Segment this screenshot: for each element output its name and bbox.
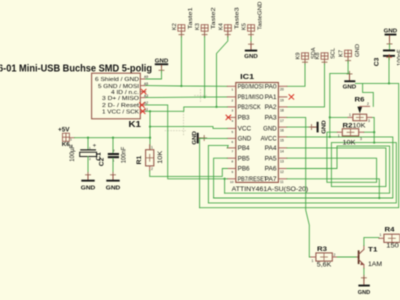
- wire C3 bottom: [388, 57, 390, 84]
- connector K1: [92, 73, 149, 129]
- svg-text:5: 5: [232, 130, 234, 134]
- ground GND rotated at IC1 GND left: [192, 131, 207, 145]
- svg-text:Taste2: Taste2: [211, 7, 217, 29]
- wire R6 wiper to GND: [363, 83, 374, 106]
- no-connect X on K1 pin 4: [141, 89, 146, 94]
- svg-text:K3: K3: [195, 23, 201, 30]
- svg-text:IC1: IC1: [240, 72, 254, 81]
- svg-text:K4: K4: [218, 23, 224, 30]
- svg-text:PB5: PB5: [238, 156, 251, 162]
- svg-text:10: 10: [230, 180, 234, 184]
- wire K8 to PA2: [287, 64, 325, 107]
- svg-text:Taste3: Taste3: [234, 7, 240, 29]
- svg-text:14: 14: [280, 149, 284, 153]
- wire GND branch to R6 pin1 and AVCC: [330, 73, 350, 136]
- wire VCC to IC1: [150, 127, 227, 129]
- svg-text:100nF: 100nF: [122, 146, 128, 163]
- resistor R1: [136, 145, 164, 171]
- resistor R2: [337, 123, 363, 147]
- svg-text:1: 1: [232, 88, 234, 92]
- svg-text:7: 7: [232, 149, 234, 153]
- svg-text:TasteGND: TasteGND: [258, 2, 264, 30]
- pin cross K4: [225, 32, 230, 37]
- svg-text:C2: C2: [98, 157, 105, 166]
- wire PB4 net: [208, 145, 228, 203]
- label origin dotted cross near PB1: [195, 90, 207, 102]
- svg-text:9: 9: [232, 170, 234, 174]
- IC1 left pin stubs: [227, 86, 236, 179]
- svg-text:GND: GND: [358, 290, 371, 296]
- capacitor C1: [70, 137, 103, 173]
- wire PA4 net wrap: [208, 143, 396, 203]
- wire K2 to PB0: [181, 37, 227, 87]
- svg-text:K1: K1: [129, 120, 142, 129]
- no-connect X on K1 pin 2: [140, 103, 145, 108]
- part origin dotted cross IC1: [165, 112, 186, 136]
- svg-text:K5: K5: [242, 23, 248, 30]
- svg-text:PA7: PA7: [265, 177, 278, 183]
- svg-text:GND: GND: [238, 137, 252, 143]
- svg-text:GND: GND: [106, 186, 121, 192]
- svg-text:3: 3: [232, 108, 234, 112]
- svg-text:1: 1: [89, 146, 91, 150]
- svg-text:R4: R4: [385, 227, 396, 234]
- svg-text:5,6K: 5,6K: [317, 262, 332, 269]
- IC1 right pin stubs: [278, 86, 287, 179]
- svg-text:PA6: PA6: [265, 167, 278, 173]
- IC1 left pin names: [238, 85, 268, 184]
- ground GND below K7: [343, 71, 357, 90]
- junction: [215, 106, 217, 108]
- svg-text:100nF: 100nF: [397, 49, 400, 66]
- svg-text:+5V: +5V: [58, 127, 70, 134]
- IC1 right pin names: [261, 85, 278, 184]
- svg-text:SCL: SCL: [330, 47, 336, 59]
- svg-text:+: +: [93, 143, 97, 150]
- svg-text:18: 18: [280, 108, 284, 112]
- svg-text:1 VCC / SCK: 1 VCC / SCK: [102, 110, 139, 116]
- svg-text:100µF: 100µF: [70, 144, 76, 161]
- svg-text:4: 4: [232, 119, 234, 123]
- no-connect X on K1 pin 1: [140, 109, 145, 114]
- wire R3 to T1 base: [337, 256, 357, 258]
- svg-text:K2: K2: [172, 23, 178, 30]
- svg-text:K7: K7: [339, 50, 345, 57]
- svg-text:2: 2: [367, 102, 369, 106]
- wire PA5 net to R2 wrap: [287, 132, 377, 182]
- svg-text:ATTINY461A-SU(SO-20): ATTINY461A-SU(SO-20): [232, 186, 309, 193]
- wire T1 collector to R4: [364, 238, 379, 246]
- pin cross K8: [322, 60, 327, 65]
- svg-text:PB3: PB3: [238, 116, 251, 122]
- svg-text:PB0/MOSI: PB0/MOSI: [238, 85, 264, 91]
- svg-text:6: 6: [232, 140, 234, 144]
- wire R6 pin3 to R2 pin3: [372, 117, 375, 142]
- svg-text:6 Shield / GND: 6 Shield / GND: [95, 77, 139, 83]
- pin cross K7: [346, 58, 351, 63]
- connector K2: [178, 25, 185, 37]
- svg-text:1AM: 1AM: [368, 261, 382, 268]
- svg-text:3: 3: [368, 119, 370, 123]
- svg-text:GND: GND: [244, 54, 258, 60]
- wire K7 to GND: [348, 61, 349, 73]
- svg-text:19: 19: [280, 98, 284, 102]
- svg-text:16: 16: [280, 129, 284, 133]
- svg-text:T1: T1: [368, 246, 378, 253]
- svg-text:GND: GND: [81, 186, 96, 192]
- wire R1 to PB6: [150, 169, 228, 177]
- svg-text:150: 150: [386, 242, 399, 249]
- wire K4 to PB2: [217, 37, 228, 107]
- svg-text:PA0: PA0: [265, 85, 278, 91]
- connector K4: [224, 25, 231, 37]
- wire VCC branch vertical: [149, 111, 151, 149]
- wire K3 to PB1: [205, 37, 228, 97]
- wire AVCC net to PB5 wrap: [214, 137, 393, 198]
- connector K5: [248, 25, 255, 37]
- IC1 right pin numbers: [280, 88, 284, 185]
- connector K8: [321, 53, 328, 64]
- wire MOSI K1 pin5: [146, 85, 182, 87]
- svg-text:1: 1: [312, 259, 314, 263]
- wire Reset net K1 pin2 to PB7/RESET: [146, 105, 228, 179]
- trimmer R6: [348, 97, 372, 130]
- svg-text:10K: 10K: [343, 139, 357, 146]
- svg-text:20: 20: [280, 88, 284, 92]
- connector K7: [345, 50, 352, 61]
- svg-text:2: 2: [334, 253, 336, 257]
- svg-text:PA3: PA3: [265, 116, 278, 122]
- wire PA7 net: [287, 179, 379, 198]
- svg-text:2: 2: [232, 98, 234, 102]
- ground GND rotated at IC1 right: [309, 120, 327, 134]
- IC1 ATTINY461A box: [232, 72, 309, 193]
- svg-text:1: 1: [338, 134, 340, 138]
- no-connect X on PB3: [226, 115, 231, 120]
- svg-text:10K: 10K: [157, 150, 164, 164]
- wire GND to C3: [389, 44, 391, 50]
- ground GND below K5: [244, 42, 258, 60]
- svg-text:GND: GND: [343, 84, 357, 90]
- wire +5V rail: [75, 137, 151, 139]
- svg-text:2: 2: [113, 149, 115, 153]
- svg-text:PA1: PA1: [265, 95, 278, 101]
- IC1 left pin numbers: [230, 88, 234, 185]
- svg-text:2: 2: [151, 167, 153, 171]
- svg-text:PB2/SCK: PB2/SCK: [238, 105, 261, 111]
- svg-text:C3: C3: [373, 57, 380, 66]
- wire MISO K1 pin3: [146, 96, 205, 99]
- svg-text:PB6: PB6: [238, 167, 251, 173]
- wire SCK net K1 pin1 to PB2: [146, 107, 228, 111]
- transistor T1: [357, 246, 382, 269]
- svg-text:K6: K6: [62, 142, 70, 148]
- wire K1 pin6 to GND: [146, 71, 162, 80]
- svg-text:1: 1: [70, 137, 72, 141]
- wire IC1 right GND to ground: [287, 126, 313, 128]
- junction: [203, 96, 205, 98]
- svg-text:R3: R3: [317, 246, 328, 253]
- svg-text:8: 8: [232, 160, 234, 164]
- svg-text:PA5: PA5: [265, 156, 278, 162]
- resistor R3: [311, 246, 337, 268]
- svg-text:1: 1: [349, 113, 351, 117]
- svg-text:12: 12: [280, 170, 284, 174]
- svg-text:GND: GND: [384, 28, 398, 34]
- capacitor C2: [98, 137, 127, 173]
- pin cross K9: [303, 60, 308, 65]
- svg-text:K9: K9: [296, 52, 302, 59]
- connector K3: [201, 25, 208, 37]
- svg-text:3 D+ / MISO: 3 D+ / MISO: [102, 96, 140, 102]
- wire PA6 net to RESET wrap: [225, 146, 390, 193]
- pin cross K2: [179, 32, 184, 37]
- svg-text:K8: K8: [315, 52, 321, 59]
- capacitor C3: [373, 49, 400, 66]
- ground GND below C1: [81, 172, 96, 191]
- svg-text:3: 3: [360, 137, 362, 141]
- svg-text:R6: R6: [355, 97, 366, 104]
- svg-text:1: 1: [151, 146, 153, 150]
- svg-text:11: 11: [280, 180, 284, 184]
- svg-text:PA2: PA2: [265, 105, 278, 111]
- wire IC1 GND pin to ring: [200, 138, 228, 207]
- svg-text:VCC: VCC: [238, 127, 252, 133]
- svg-text:GND: GND: [263, 127, 277, 133]
- svg-text:17: 17: [280, 119, 284, 123]
- no-connect X on PA1: [289, 95, 294, 100]
- junction: [180, 85, 182, 87]
- pin cross K3: [202, 32, 207, 37]
- svg-text:PB7/RESET: PB7/RESET: [238, 177, 268, 183]
- ground GND near K1: [155, 58, 169, 73]
- wire RESET wrap vertical: [224, 179, 226, 193]
- svg-text:GND: GND: [355, 44, 361, 57]
- svg-text:PB4: PB4: [238, 146, 251, 152]
- svg-text:PA4: PA4: [265, 146, 278, 152]
- svg-text:2 D- / Reset: 2 D- / Reset: [102, 103, 139, 109]
- svg-text:2: 2: [89, 157, 91, 161]
- ground GND below T1: [358, 275, 371, 296]
- connector K6: [63, 133, 75, 141]
- svg-text:AVCC: AVCC: [261, 137, 278, 143]
- wire K9 to PA0: [287, 64, 305, 87]
- wire K5 to GND: [250, 37, 252, 44]
- wire GND ring bottom: [200, 83, 399, 207]
- ground GND below C2: [106, 172, 121, 191]
- svg-text:PB1/MISO: PB1/MISO: [238, 95, 264, 101]
- ground GND above C3: [384, 28, 398, 46]
- svg-text:R1: R1: [136, 155, 143, 164]
- pin cross K5: [249, 32, 254, 37]
- svg-text:Taste1: Taste1: [188, 7, 194, 29]
- resistor R4: [379, 227, 400, 250]
- svg-text:1: 1: [380, 233, 382, 237]
- wire PA3 to R3: [287, 117, 311, 257]
- wire PB5 net: [214, 158, 228, 198]
- svg-text:15: 15: [280, 138, 284, 142]
- svg-text:13: 13: [280, 160, 284, 164]
- connector K9: [302, 53, 309, 64]
- wire T1 emitter to GND: [363, 269, 365, 278]
